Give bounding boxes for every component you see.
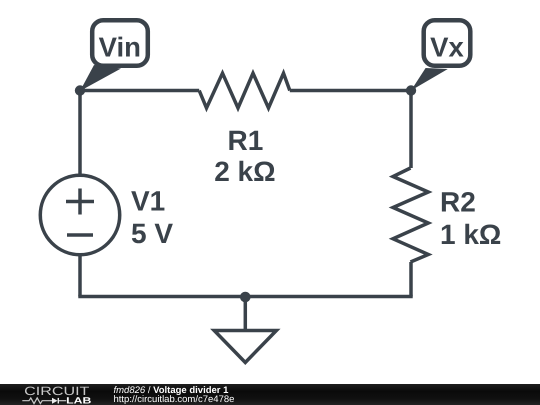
svg-text:R2: R2: [440, 187, 476, 218]
CircuitLab logo: [22, 384, 92, 405]
wire: Vin node to V1 positive terminal: [78, 91, 82, 175]
node label Vx: [411, 20, 470, 90]
wire: R1 to Vx node: [290, 89, 411, 93]
svg-text:R1: R1: [228, 125, 264, 156]
svg-text:Vx: Vx: [430, 32, 464, 63]
wire: R2 to bottom rail: [409, 262, 413, 297]
junction node Vin: [75, 85, 85, 95]
wire: V1 negative terminal to bottom rail: [78, 255, 82, 297]
node label Vin: [80, 20, 148, 91]
ground: [214, 297, 276, 363]
svg-text:LAB: LAB: [66, 395, 92, 405]
footer bar: [0, 384, 540, 405]
svg-text:1 kΩ: 1 kΩ: [440, 219, 501, 250]
svg-text:http://circuitlab.com/c7e478e: http://circuitlab.com/c7e478e: [114, 394, 235, 405]
wire: Vin node to R1: [80, 89, 199, 93]
svg-text:V1: V1: [131, 186, 165, 217]
resistor R1: [199, 73, 290, 108]
svg-text:5 V: 5 V: [131, 218, 173, 249]
svg-text:Vin: Vin: [99, 32, 141, 63]
svg-text:2 kΩ: 2 kΩ: [214, 156, 275, 187]
junction: ground node: [240, 292, 251, 303]
wire: bottom rail: [78, 295, 412, 299]
wire: Vx node to R2: [409, 91, 413, 169]
resistor R2: [393, 168, 428, 262]
voltage source V1: [40, 175, 119, 254]
junction node Vx: [406, 85, 416, 95]
